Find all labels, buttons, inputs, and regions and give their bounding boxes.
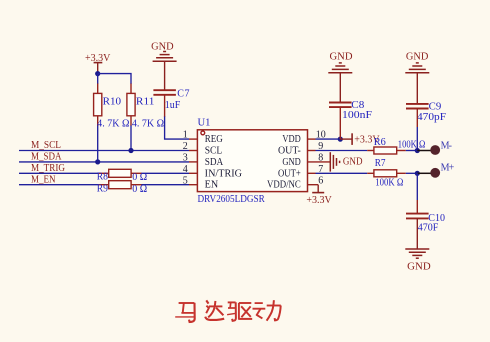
- svg-text:R10: R10: [103, 97, 122, 108]
- svg-text:5: 5: [183, 175, 188, 186]
- svg-text:VDD/NC: VDD/NC: [267, 180, 301, 191]
- power port GND (above C8): [328, 63, 352, 73]
- pin 1 REG: [183, 130, 223, 145]
- wire R11 bottom to M_SCL: [130, 126, 132, 151]
- power port +3.3V (top left): [85, 53, 111, 73]
- svg-text:REG: REG: [205, 134, 223, 145]
- wire C10 to GND: [416, 218, 418, 249]
- pin 2 SCL: [183, 141, 222, 156]
- wire M_EN (R9 to pin 5): [141, 184, 189, 186]
- svg-text:8: 8: [318, 153, 323, 164]
- svg-text:470F: 470F: [418, 223, 439, 234]
- resistor R8: [97, 169, 147, 183]
- pin 3 SDA: [183, 153, 224, 168]
- svg-text:M_TRIG: M_TRIG: [31, 163, 65, 174]
- pin 5 EN: [183, 175, 218, 190]
- svg-text:GND: GND: [330, 51, 353, 62]
- svg-text:GND: GND: [406, 51, 429, 62]
- IC U1 body: [197, 118, 307, 206]
- wire C9 bottom to OUT- net: [416, 109, 418, 128]
- svg-text:OUT-: OUT-: [278, 146, 301, 157]
- junction dot C9/OUT-: [415, 148, 420, 153]
- pin 6 VDD/NC: [267, 175, 323, 190]
- capacitor C7: [153, 88, 190, 111]
- pin 4 IN/TRIG: [183, 164, 242, 179]
- svg-text:R6: R6: [374, 137, 386, 148]
- svg-text:SDA: SDA: [205, 157, 224, 168]
- title: motor drive (hanzi drawn as strokes): [175, 300, 281, 322]
- hanzi DONG (move): [253, 300, 281, 321]
- svg-text:VDD: VDD: [282, 134, 300, 145]
- pin 8 GND: [282, 153, 330, 168]
- wire pin7 to R7: [316, 172, 368, 174]
- svg-text:R11: R11: [136, 97, 155, 108]
- svg-text:1uF: 1uF: [165, 100, 181, 111]
- sideways GND at pin 8: [330, 152, 339, 171]
- svg-text:+3.3V: +3.3V: [306, 195, 332, 206]
- junction dot at +3.3V node: [95, 71, 100, 76]
- wire +3.3V node to R11 top: [98, 74, 131, 84]
- svg-text:4. 7K Ω: 4. 7K Ω: [132, 119, 164, 130]
- svg-text:6: 6: [318, 175, 323, 186]
- svg-text:EN: EN: [205, 180, 219, 191]
- junction dot C10/OUT+: [415, 171, 420, 176]
- pad M-: [430, 145, 440, 155]
- wire M_SCL: [19, 150, 189, 152]
- svg-text:M+: M+: [441, 162, 455, 173]
- wire M_TRIG (left of R8): [19, 172, 99, 174]
- svg-text:4. 7K Ω: 4. 7K Ω: [97, 119, 129, 130]
- capacitor C9: [406, 102, 446, 123]
- wire M_SDA: [19, 161, 189, 163]
- svg-text:SCL: SCL: [205, 146, 223, 157]
- svg-text:0 Ω: 0 Ω: [132, 184, 147, 195]
- wire C7 bottom to pin 1: [164, 95, 166, 117]
- svg-text:100K Ω: 100K Ω: [375, 177, 403, 188]
- svg-text:R8: R8: [97, 172, 108, 183]
- svg-text:1: 1: [183, 130, 188, 141]
- capacitor C10: [406, 213, 445, 234]
- hanzi DA (reach): [205, 300, 224, 320]
- wire node to pad M-: [417, 150, 431, 152]
- svg-text:100K Ω: 100K Ω: [398, 140, 426, 151]
- wire OUT+ node down to C10: [416, 173, 418, 200]
- svg-text:2: 2: [183, 141, 188, 152]
- power port +3.3V (right of pin 10): [340, 133, 380, 145]
- capacitor C8: [329, 100, 373, 121]
- svg-text:4: 4: [183, 164, 188, 175]
- wire C8 bottom to pin10 node: [339, 107, 341, 139]
- resistor R11: [127, 84, 164, 130]
- pin 7 OUT+: [278, 164, 323, 179]
- svg-text:GND: GND: [343, 157, 363, 168]
- wire pin10 to +3.3V node: [316, 138, 341, 140]
- pin 9 OUT-: [278, 141, 323, 156]
- junction dot R10/M_SDA: [95, 159, 100, 164]
- svg-text:GND: GND: [407, 262, 431, 273]
- pin 10 VDD: [282, 130, 325, 145]
- wire pin9 to R6: [316, 150, 368, 152]
- wire node to pad M+: [417, 172, 431, 174]
- svg-text:R7: R7: [375, 158, 386, 169]
- wire M_EN (left of R9): [19, 184, 99, 186]
- junction dot R11/M_SCL: [128, 148, 133, 153]
- wire GND to C8: [339, 73, 341, 102]
- hanzi MA (horse): [175, 303, 195, 322]
- svg-text:M_EN: M_EN: [31, 174, 56, 185]
- wire GND to C7: [164, 61, 166, 89]
- wire +3.3V node to R10 top: [97, 74, 99, 84]
- hanzi QU (drive): [227, 302, 252, 321]
- svg-text:IN/TRIG: IN/TRIG: [205, 168, 242, 179]
- svg-text:R9: R9: [97, 183, 108, 194]
- svg-text:M_SDA: M_SDA: [31, 152, 62, 163]
- svg-text:DRV2605LDGSR: DRV2605LDGSR: [198, 194, 266, 205]
- wire R10 bottom to M_SDA: [97, 126, 99, 162]
- svg-text:C7: C7: [177, 88, 190, 99]
- svg-text:M_SCL: M_SCL: [31, 140, 61, 151]
- svg-text:470pF: 470pF: [417, 112, 446, 123]
- svg-text:M-: M-: [441, 141, 452, 152]
- svg-text:GND: GND: [151, 42, 174, 53]
- resistor R9: [97, 181, 147, 195]
- junction dot pin10/C8: [338, 137, 343, 142]
- resistor R10: [94, 84, 130, 130]
- wire R6 to M- node: [406, 150, 418, 152]
- power port +3.3V (below pin 6): [306, 185, 332, 206]
- wire R7 to M+ node: [406, 172, 418, 174]
- pad M+: [430, 168, 440, 178]
- ground below C10: [405, 249, 429, 258]
- resistor R7: [367, 158, 406, 188]
- svg-text:U1: U1: [198, 118, 211, 129]
- svg-text:100nF: 100nF: [342, 110, 373, 121]
- svg-text:0 Ω: 0 Ω: [132, 172, 147, 183]
- svg-text:OUT+: OUT+: [278, 168, 301, 179]
- resistor R6: [367, 137, 425, 154]
- wire M_TRIG (R8 to pin 4): [141, 172, 189, 174]
- svg-text:GND: GND: [282, 157, 300, 168]
- svg-text:3: 3: [183, 153, 188, 164]
- power port GND (above C7): [153, 52, 177, 62]
- wire GND to C9: [416, 73, 418, 104]
- power port GND (above C9): [405, 63, 429, 73]
